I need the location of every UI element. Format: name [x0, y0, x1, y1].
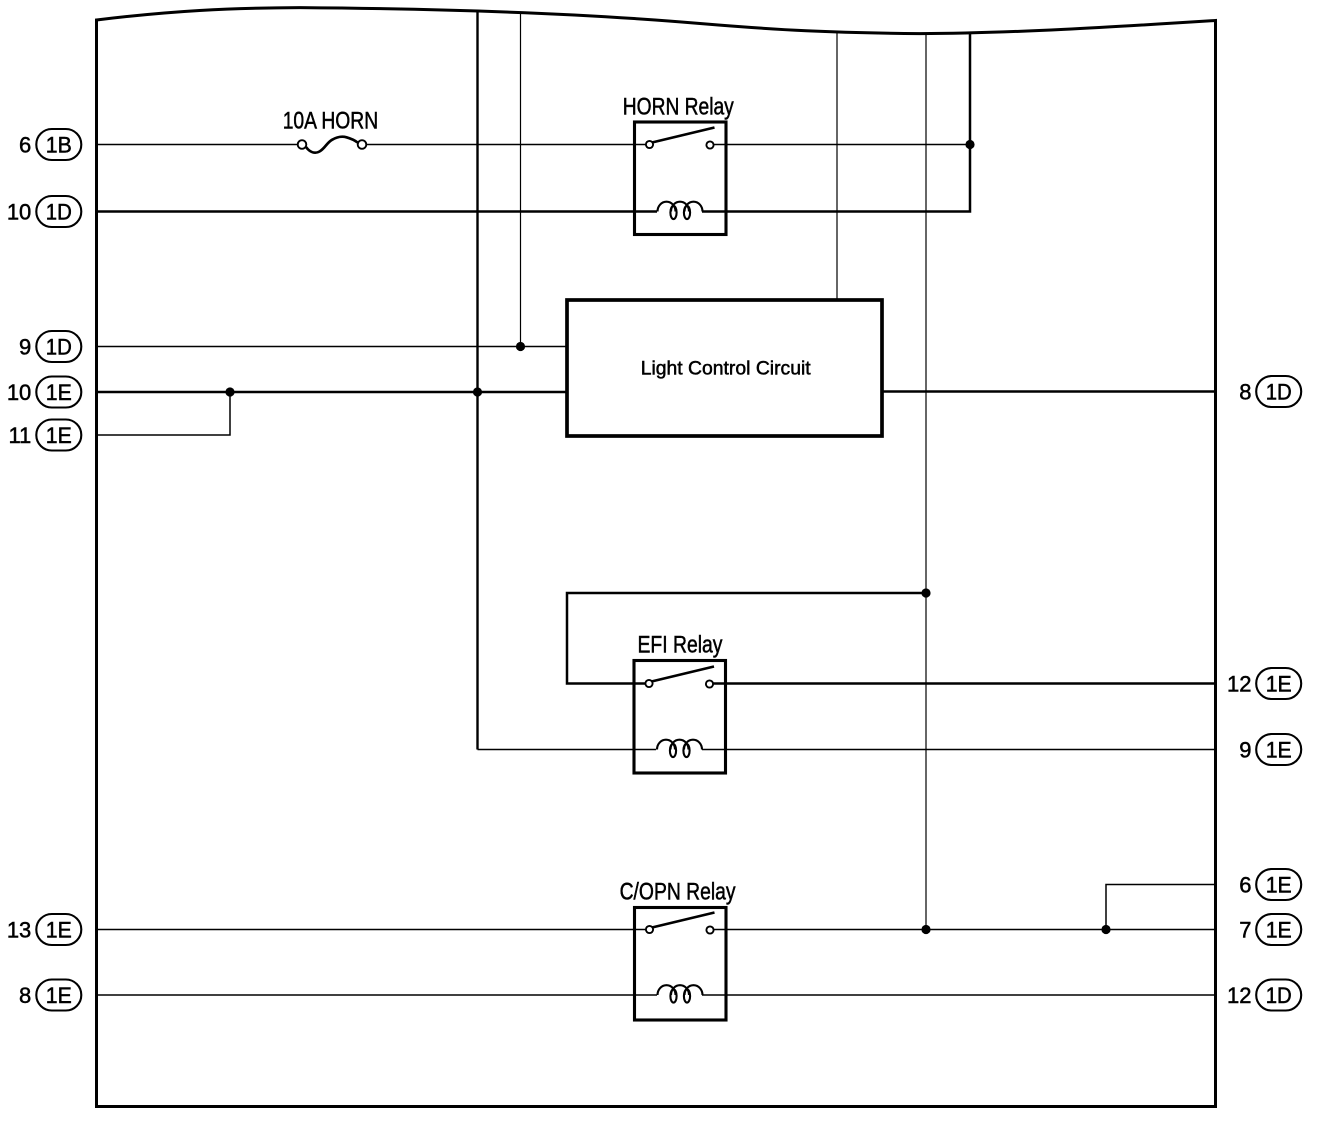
svg-text:11: 11	[8, 423, 31, 448]
svg-text:8: 8	[1239, 380, 1251, 405]
connector 9 (1E) R	[1239, 734, 1301, 765]
junction node on 7(1E) net at (1106,929.5)	[1101, 925, 1110, 934]
svg-text:1D: 1D	[46, 200, 72, 225]
fuse 10A HORN	[283, 107, 379, 152]
wire EFI relay coil to 9(1E)	[702, 749, 1216, 751]
svg-text:1E: 1E	[1266, 738, 1292, 763]
svg-text:1E: 1E	[1266, 672, 1292, 697]
svg-text:1E: 1E	[46, 423, 72, 448]
svg-text:10: 10	[7, 200, 31, 225]
junction node on 10(1D) net at (970,144.5)	[965, 140, 974, 149]
connector 12 (1D) R	[1227, 980, 1301, 1011]
connector 6 (1E) R	[1239, 869, 1301, 900]
wire 8(1E) to C/OPN relay coil	[97, 994, 658, 996]
wire Light Control Circuit to 8(1D)	[882, 390, 1216, 393]
wire 6(1E) stub down to 7(1E) net	[1106, 885, 1216, 930]
svg-text:1D: 1D	[1266, 983, 1292, 1008]
relay HORN (U1)	[623, 93, 734, 234]
svg-text:HORN Relay: HORN Relay	[623, 93, 734, 120]
connector 9 (1D) L	[19, 331, 81, 362]
connector 6 (1B) L	[19, 129, 81, 160]
wire vertical feeder A (x=477.5, to EFI coil net)	[476, 11, 478, 750]
svg-text:1D: 1D	[46, 335, 72, 360]
connector 13 (1E) L	[7, 914, 81, 945]
svg-text:10A HORN: 10A HORN	[283, 107, 379, 134]
svg-text:13: 13	[7, 918, 31, 943]
relay EFI (U2)	[634, 632, 726, 774]
svg-text:1B: 1B	[46, 133, 72, 158]
wire vertical feeder B (x=520.5, to 9-1D net)	[520, 13, 522, 347]
connector 7 (1E) R	[1239, 914, 1301, 945]
junction node on 10(1E) net at (230,392)	[225, 387, 234, 396]
svg-text:1D: 1D	[1266, 380, 1292, 405]
svg-text:9: 9	[1239, 738, 1251, 763]
junction node on C/OPN contact net at (926,929.5)	[921, 925, 930, 934]
junction node on 10(1E) net at (477.5,392)	[473, 387, 482, 396]
wire 10(1D) to HORN relay coil	[97, 210, 658, 213]
connector 12 (1E) R	[1227, 668, 1301, 699]
wire C/OPN relay coil to 12(1D)	[702, 994, 1216, 996]
svg-text:12: 12	[1227, 672, 1251, 697]
relay C/OPN (U3)	[620, 879, 736, 1021]
svg-text:6: 6	[19, 133, 31, 158]
svg-text:10: 10	[7, 380, 31, 405]
wire 6(1B) to fuse	[97, 144, 299, 146]
svg-text:1E: 1E	[1266, 918, 1292, 943]
svg-text:EFI Relay: EFI Relay	[638, 632, 723, 659]
wire 9(1D) to Light Control Circuit	[97, 346, 568, 348]
svg-text:7: 7	[1239, 918, 1251, 943]
wire vertical feeder C (x=837, to Light Control Circuit top)	[836, 32, 838, 300]
junction node on EFI net at (926,593)	[921, 588, 930, 597]
wire EFI relay contact to 12(1E)	[713, 682, 1216, 685]
svg-text:6: 6	[1239, 873, 1251, 898]
svg-text:Light Control Circuit: Light Control Circuit	[641, 357, 811, 379]
wire 13(1E) to C/OPN relay contact	[97, 929, 647, 931]
junction node on 9(1D) net at (520.5,346.5)	[516, 342, 525, 351]
svg-text:8: 8	[19, 983, 31, 1008]
svg-text:1E: 1E	[1266, 873, 1292, 898]
connector 10 (1E) L	[7, 377, 81, 408]
svg-text:1E: 1E	[46, 918, 72, 943]
wire vertical feeder E (x=970, thick, 10-1D net)	[702, 33, 970, 212]
wire 10(1E) to Light Control Circuit	[97, 391, 568, 394]
wire 11(1E) stub up to 10(1E) net	[97, 392, 231, 435]
svg-text:1E: 1E	[46, 983, 72, 1008]
wire C/OPN relay contact to 7(1E)	[713, 929, 1216, 931]
connector 10 (1D) L	[7, 196, 81, 227]
wire EFI coil net (x477.5 corner) to coil	[478, 749, 657, 751]
wire vertical feeder D (x=926, to C/OPN relay contact net)	[925, 34, 927, 930]
connector 11 (1E) L	[8, 420, 81, 451]
connector 8 (1E) L	[19, 980, 81, 1011]
svg-text:9: 9	[19, 335, 31, 360]
svg-text:1E: 1E	[46, 380, 72, 405]
connector 8 (1D) R	[1239, 376, 1301, 407]
wire HORN relay contact to node (970,144.5)	[713, 144, 971, 146]
svg-text:12: 12	[1227, 983, 1251, 1008]
svg-text:C/OPN Relay: C/OPN Relay	[620, 879, 736, 906]
wire fuse to HORN relay contact	[366, 144, 646, 146]
wire EFI contact net from node (926,593)	[567, 593, 926, 684]
block Light Control Circuit	[567, 300, 882, 436]
